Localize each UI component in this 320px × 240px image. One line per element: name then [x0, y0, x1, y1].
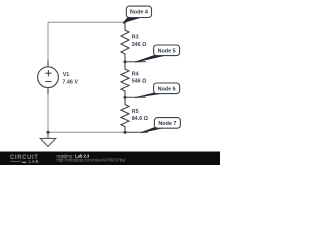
footer bar — [0, 152, 220, 166]
resistor R4 — [121, 62, 129, 98]
ground — [40, 132, 56, 146]
resistor R5 — [121, 97, 129, 132]
svg-text:▬ LAB: ▬ LAB — [22, 159, 39, 164]
node B junction R3/R4 — [123, 60, 126, 63]
svg-text:R5: R5 — [132, 109, 139, 115]
node 5 flag — [135, 45, 180, 62]
svg-text:Node 7: Node 7 — [158, 121, 176, 127]
wire bottom horizontal — [48, 131, 125, 133]
wire left vertical upper — [47, 22, 49, 61]
node 4 flag — [123, 6, 151, 23]
wire left vertical lower — [47, 94, 49, 132]
node 7 flag — [141, 118, 180, 133]
node D junction bottom — [123, 131, 126, 134]
wire stub node7 — [125, 131, 148, 133]
voltage source V1 — [38, 61, 59, 95]
svg-text:R3: R3 — [132, 35, 139, 41]
node 6 flag — [135, 83, 180, 98]
node ground-junction — [46, 131, 49, 134]
svg-text:V1: V1 — [63, 72, 70, 78]
svg-text:246 Ω: 246 Ω — [132, 42, 147, 48]
node C junction R4/R5 — [123, 96, 126, 99]
wire top horizontal — [48, 21, 125, 23]
svg-text:84.6 Ω: 84.6 Ω — [132, 116, 149, 122]
wire stub node6 — [125, 96, 146, 98]
svg-text:http://circuitlab.com/c6se4476: http://circuitlab.com/c6se4476h7d7ba/ — [57, 157, 127, 162]
svg-text:Node 6: Node 6 — [158, 86, 176, 92]
svg-text:R4: R4 — [132, 72, 139, 78]
resistor R3 — [121, 22, 129, 62]
svg-text:546 Ω: 546 Ω — [132, 79, 147, 85]
wire stub node5 — [125, 61, 146, 63]
svg-text:7.46 V: 7.46 V — [62, 79, 78, 85]
svg-text:Node 5: Node 5 — [158, 48, 176, 54]
svg-text:Node 4: Node 4 — [130, 10, 148, 16]
